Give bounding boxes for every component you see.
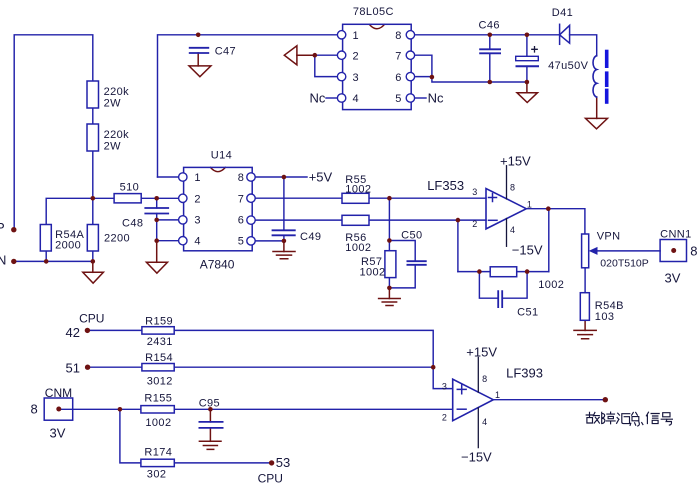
resistor 220k lower (87, 124, 99, 151)
wire VPN wiper to CNN1 (596, 250, 660, 252)
wire C46 top stub (489, 35, 491, 50)
svg-text:103: 103 (595, 311, 615, 323)
pin circle 78L05C pin4 (337, 94, 345, 102)
svg-text:+15V: +15V (466, 344, 497, 359)
svg-text:4: 4 (510, 225, 515, 235)
svg-text:3V: 3V (50, 425, 66, 440)
svg-text:4: 4 (353, 93, 360, 105)
junction node R54A/N rail (44, 259, 49, 264)
wire 2200 bottom to N rail (92, 251, 94, 261)
svg-text:VPN: VPN (597, 230, 621, 242)
IC 78L05C body (343, 24, 412, 109)
resistor 220k upper (87, 81, 99, 108)
wire C51 branch right (502, 272, 527, 299)
svg-text:1: 1 (353, 30, 360, 42)
svg-text:1002: 1002 (145, 417, 171, 429)
junction node C95 (208, 407, 213, 412)
terminal P (11, 227, 16, 232)
wire 78L05C pin5 Nc stub (415, 97, 426, 99)
terminal CPU 53 (269, 460, 274, 465)
svg-text:CPU: CPU (79, 312, 104, 326)
svg-text:1: 1 (194, 172, 201, 184)
wire R55 node down to R57 (388, 198, 390, 251)
earth ground R54B (574, 330, 596, 338)
wire R56 to op-amp pin2 (369, 219, 486, 221)
svg-text:2200: 2200 (104, 233, 130, 245)
resistor R56 (342, 215, 369, 225)
wire C48 node to U14 pin3 (157, 219, 179, 221)
junction node 510/C48 (154, 196, 159, 201)
svg-text:6: 6 (395, 72, 402, 84)
terminal output signal (603, 397, 608, 402)
junction node pin6/pin7 (430, 75, 435, 80)
wire top rail U14 pin1 to 78L05C pin1 (158, 35, 338, 177)
svg-text:1002: 1002 (345, 184, 371, 196)
transformer core dashes (605, 50, 609, 104)
wire U14 pin5 to C49 ground node (255, 240, 284, 242)
svg-text:−15V: −15V (512, 243, 543, 258)
wire feedback loop right (548, 209, 550, 272)
svg-text:020T510P: 020T510P (600, 258, 648, 270)
wire C51 branch left (479, 272, 498, 299)
pin dot CNN1 (671, 248, 676, 253)
svg-text:78L05C: 78L05C (353, 6, 394, 18)
junction node R55 out (387, 196, 392, 201)
ground stub 2200 (92, 261, 94, 272)
earth ground C95 (199, 441, 221, 449)
wire arrow to node (297, 54, 315, 56)
svg-text:4: 4 (194, 236, 201, 248)
potentiometer VPN wiper arrow (589, 247, 598, 255)
capacitor C46 plates (480, 49, 500, 53)
wire C49 column (283, 177, 285, 230)
pin circle 78L05C pin7 (406, 51, 414, 59)
svg-text:8: 8 (510, 183, 515, 193)
wire 78L05C pin4 Nc stub (326, 97, 337, 99)
svg-text:220k: 220k (104, 129, 130, 141)
svg-text:1: 1 (527, 199, 532, 209)
op-amp LF353 V- pin lead (506, 219, 508, 247)
polarized capacitor 47u50V bottom plate (517, 65, 539, 67)
pin circle U14 pin6 (247, 216, 255, 224)
wire 220k bottom to node 510 (92, 151, 94, 198)
junction node C46 bottom (488, 80, 493, 85)
svg-text:2: 2 (353, 50, 360, 62)
resistor R55 (342, 193, 369, 203)
wire feedback rail (458, 271, 549, 273)
pin circle 78L05C pin3 (337, 72, 345, 80)
ground stub R57 (388, 288, 390, 299)
junction node C48/pin4 (154, 238, 159, 243)
op-amp LF353 minus sign (489, 219, 498, 221)
pin dot CNM (56, 407, 61, 412)
pin circle 78L05C pin5 (406, 94, 414, 102)
earth ground R57 (379, 299, 401, 306)
inductor winding L1 (593, 56, 597, 97)
svg-text:8: 8 (690, 244, 697, 259)
svg-text:R159: R159 (145, 315, 173, 327)
svg-text:+15V: +15V (500, 154, 531, 169)
svg-text:3: 3 (472, 187, 477, 197)
wire branch down to R174 (120, 409, 141, 463)
capacitor C95 plates (199, 422, 222, 428)
junction node C48/pin3 (154, 218, 159, 223)
connector CNN1 box (660, 240, 686, 262)
wire U14 pin6 to R56 (255, 219, 342, 221)
svg-text:42: 42 (66, 325, 80, 340)
capacitor C47 plates (190, 48, 209, 53)
pin circle U14 pin8 (247, 173, 255, 181)
wire VPN bottom to R54B (584, 268, 586, 293)
svg-text:220k: 220k (104, 86, 130, 98)
capacitor C51 plates (498, 291, 502, 307)
svg-text:1002: 1002 (345, 242, 371, 254)
wire C48 node to U14 pin4 (157, 240, 179, 242)
ground (triangle) C47 (189, 66, 211, 77)
wire U14 pin7 to R55 (255, 197, 342, 199)
svg-text:3: 3 (194, 215, 201, 227)
svg-text:2000: 2000 (55, 239, 81, 251)
svg-text:LF393: LF393 (506, 366, 543, 381)
junction node R155/R174 (118, 407, 123, 412)
IC U14 body (184, 167, 253, 250)
wire CNM to R155 (59, 408, 141, 410)
pin circle U14 pin4 (179, 237, 187, 245)
svg-text:CNN1: CNN1 (660, 229, 692, 241)
svg-text:−15V: −15V (461, 450, 492, 465)
wire C49 bottom stub (283, 235, 285, 241)
terminal CPU 42 (85, 328, 90, 333)
pin circle U14 pin7 (247, 194, 255, 202)
wire 78L05C pin8 to D41 (415, 34, 560, 36)
junction node C47 (196, 33, 201, 38)
wire C46 bottom stub (489, 53, 491, 82)
earth ground C49 (273, 252, 295, 259)
capacitor C49 plates (273, 230, 295, 235)
svg-text:C47: C47 (215, 46, 236, 58)
svg-text:3V: 3V (665, 271, 681, 286)
svg-text:2W: 2W (104, 98, 122, 110)
resistor R174 (141, 459, 174, 466)
svg-text:C50: C50 (401, 230, 422, 242)
wire node to 510 and U14 pin2 (46, 198, 178, 224)
glyph xin (646, 412, 659, 423)
ground stub 47u cap (526, 82, 528, 93)
svg-text:302: 302 (147, 469, 167, 481)
svg-text:5: 5 (238, 236, 245, 248)
wire CPU42 to R159 (90, 329, 142, 331)
wire 47u top stub (526, 35, 528, 57)
svg-text:3: 3 (353, 72, 360, 84)
svg-text:N: N (0, 253, 6, 268)
svg-text:7: 7 (395, 50, 402, 62)
svg-text:Nc: Nc (310, 90, 326, 105)
wire N terminal rail (14, 260, 93, 262)
op-amp LF393 minus sign (457, 408, 466, 410)
svg-text:CPU: CPU (258, 472, 283, 486)
svg-text:1002: 1002 (360, 266, 386, 278)
wire op-amp output to VPN top (526, 209, 585, 234)
svg-text:LF353: LF353 (427, 178, 464, 193)
junction node 47u top (525, 33, 530, 38)
resistor 510 (114, 194, 141, 203)
ground stub C48 (156, 242, 158, 262)
wire CPU51 to R154 (90, 366, 142, 368)
wire R57 bottom to node (388, 278, 390, 288)
resistor 2200 (87, 225, 98, 252)
svg-text:A7840: A7840 (200, 258, 235, 272)
svg-text:P: P (0, 220, 5, 235)
glyph hao (661, 413, 672, 425)
svg-text:2431: 2431 (147, 336, 173, 348)
ground stub C47 (197, 53, 199, 66)
glyph zhang (602, 412, 615, 424)
svg-text:C51: C51 (517, 306, 538, 318)
wire feedback loop left (457, 220, 459, 272)
wire C48 column upper (156, 198, 158, 208)
pin circle 78L05C pin1 (337, 31, 345, 39)
svg-text:R155: R155 (144, 392, 172, 404)
svg-text:3012: 3012 (147, 376, 173, 388)
junction node C51 right (525, 269, 530, 274)
svg-text:D41: D41 (552, 7, 573, 19)
wire C50 branch top (389, 241, 415, 262)
ground stub transformer (596, 97, 598, 118)
connector CNM box (44, 398, 72, 420)
ground stub C95 lower (209, 428, 211, 441)
ground (triangle) C48 (146, 262, 167, 273)
wire node down to 2200 top (92, 198, 94, 224)
wire 78L05C pin2 stub (315, 54, 338, 56)
terminal CPU 51 (85, 365, 90, 370)
junction node 2200 ground (91, 259, 96, 264)
ground stub C49 (283, 241, 285, 252)
resistor 1002 feedback (490, 267, 517, 277)
wire minus rail to 47u cap (432, 77, 527, 82)
op-amp LF353 V+ pin lead (506, 166, 508, 199)
pin circle U14 pin1 (179, 173, 187, 181)
power port arrow at 78L05C pin2 (284, 46, 297, 65)
svg-text:47u50V: 47u50V (548, 60, 589, 72)
wire 78L05C pin2-pin3 loop (315, 55, 338, 76)
op-amp U1 LF353 triangle (486, 189, 526, 229)
junction node inverting input (456, 218, 461, 223)
ground (triangle) 2200 (83, 272, 104, 283)
wire D41 to transformer (570, 35, 597, 56)
op-amp LF393 V- pin lead (477, 408, 479, 448)
svg-text:C46: C46 (479, 20, 500, 32)
wire U14 pin1 stub (158, 176, 179, 178)
diode D41 (560, 24, 570, 44)
wire R154 to node (174, 366, 433, 368)
svg-text:CNM: CNM (45, 386, 72, 400)
glyph zong (630, 412, 643, 426)
op-amp LF393 V+ pin lead (477, 358, 479, 393)
svg-text:510: 510 (120, 182, 140, 194)
resistor R54B (580, 293, 589, 321)
glyph hui (617, 413, 631, 423)
notch U14 (210, 167, 225, 171)
notch 78L05C (369, 25, 384, 29)
svg-text:51: 51 (66, 361, 80, 376)
ground stub R54B (584, 320, 586, 330)
wire C48 column lower (156, 214, 158, 243)
svg-text:2: 2 (194, 193, 201, 205)
op-amp LF353 plus sign (489, 194, 497, 202)
svg-text:Nc: Nc (428, 90, 444, 105)
svg-text:53: 53 (276, 455, 290, 470)
wire P terminal loop to 220k chain (14, 35, 93, 228)
junction node R57 top (387, 238, 392, 243)
pin circle 78L05C pin8 (406, 31, 414, 39)
junction node 47u bottom (525, 80, 530, 85)
junction node 220k/510 (91, 196, 96, 201)
svg-text:8: 8 (482, 374, 487, 384)
svg-text:3: 3 (442, 382, 447, 392)
svg-text:R174: R174 (144, 447, 172, 459)
svg-text:R154: R154 (145, 352, 173, 364)
junction node arrow/pin2 (313, 53, 318, 58)
svg-text:1: 1 (495, 390, 500, 400)
wire 78L05C pin7 loop (415, 55, 432, 77)
op-amp LF393 plus sign (457, 385, 466, 394)
junction node C46 top (488, 33, 493, 38)
junction node R154/R159 (431, 365, 436, 370)
wire 47u bottom stub (526, 66, 528, 82)
op-amp U2 LF393 triangle (453, 379, 494, 421)
junction node +5V/C49 (282, 175, 287, 180)
junction node C51 left (477, 269, 482, 274)
resistor R57 (385, 251, 396, 278)
pin circle U14 pin2 (179, 194, 187, 202)
junction node R57 bottom (387, 286, 392, 291)
junction node op-amp output (546, 206, 551, 211)
capacitor C48 plates (145, 208, 168, 214)
ground stub C95 (209, 409, 211, 422)
wire 78L05C pin6 stub (415, 76, 432, 78)
wire between 220k resistors (92, 108, 94, 124)
svg-text:5: 5 (395, 93, 402, 105)
svg-text:7: 7 (238, 193, 245, 205)
svg-text:U14: U14 (211, 150, 232, 162)
svg-text:1002: 1002 (538, 279, 564, 291)
wire R54A bottom to N rail (45, 251, 47, 261)
wire R155 to LF393 pin2 (174, 408, 452, 410)
capacitor C50 plates (407, 261, 425, 265)
pin circle 78L05C pin6 (406, 72, 414, 80)
chinese label fault summary signal (586, 412, 672, 426)
ground (triangle) 47u cap (517, 93, 538, 103)
svg-text:8: 8 (395, 30, 402, 42)
svg-text:C48: C48 (122, 218, 143, 230)
resistor R159 (142, 327, 174, 334)
junction node C49 ground (282, 239, 287, 244)
polarized capacitor plus sign (532, 47, 537, 52)
terminal N (11, 259, 16, 264)
wire R174 to CPU53 (174, 462, 269, 464)
wire U14 pin8 to +5V (255, 176, 307, 178)
resistor R154 (142, 364, 174, 371)
polarized capacitor 47u50V top plate (516, 56, 539, 60)
wire C50 branch bottom (389, 265, 415, 288)
svg-text:2W: 2W (104, 140, 122, 152)
svg-text:C95: C95 (199, 398, 220, 410)
resistor R155 (141, 406, 174, 413)
svg-text:+5V: +5V (309, 170, 333, 185)
pin circle U14 pin3 (179, 216, 187, 224)
wire R55 to op-amp pin3 (369, 197, 486, 199)
pin circle U14 pin5 (247, 237, 255, 245)
svg-text:8: 8 (31, 401, 38, 416)
wire R159 to LF393 pin3 (174, 330, 453, 388)
glyph gu (586, 412, 599, 423)
wire LF393 output (493, 399, 603, 401)
svg-text:2: 2 (472, 219, 477, 229)
potentiometer VPN body (582, 234, 589, 268)
svg-text:6: 6 (238, 215, 245, 227)
pin circle 78L05C pin2 (337, 51, 345, 59)
svg-text:C49: C49 (300, 231, 321, 243)
svg-text:8: 8 (238, 172, 245, 184)
svg-text:4: 4 (482, 417, 487, 427)
resistor R54A (40, 225, 51, 252)
svg-text:2: 2 (442, 413, 447, 423)
ground (triangle) transformer (586, 118, 608, 128)
